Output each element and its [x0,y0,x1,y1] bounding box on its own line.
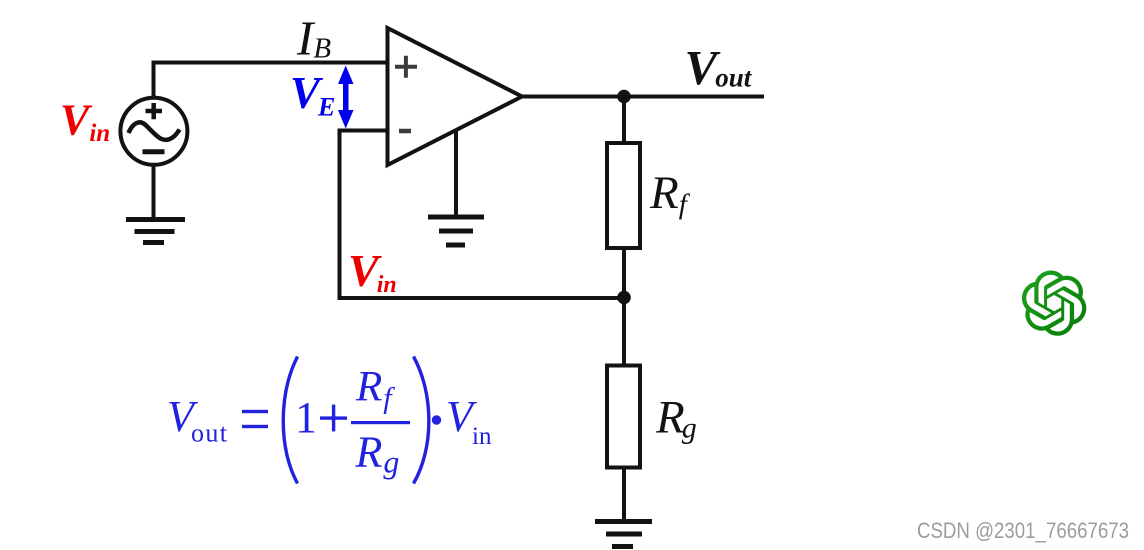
wire: Rg to ground [622,467,626,521]
wire: node B to Rg [622,298,626,367]
wire: feedback horizontal [338,296,625,300]
svg-text:CSDN @2301_76667673: CSDN @2301_76667673 [917,518,1129,543]
wire: minus input to feedback (left and down) [340,131,389,299]
svg-text:out: out [191,419,228,448]
wire: source top vertical [152,63,156,98]
wire: op-amp ground pin [454,130,458,217]
formula V_out = (1 + Rf/Rg) * V_in (blue) [167,357,492,484]
op-amp plus input mark [395,56,417,78]
formula equals sign [242,410,268,413]
wire: Rf to node B [622,248,626,298]
node B (feedback junction) [617,291,631,305]
voltage source V1 circle [120,98,187,165]
op-amp minus input mark [399,129,411,134]
formula fraction bar [351,421,410,424]
voltage source minus mark [143,149,165,154]
svg-text:1: 1 [295,393,317,442]
formula left parenthesis [283,357,297,484]
ground under op-amp [428,217,484,245]
wire: top horizontal to op-amp + input [152,61,389,65]
resistor Rf [607,143,640,248]
node A (output junction) [617,90,631,104]
wire: node to Rf [622,97,626,145]
formula right parenthesis [414,357,429,484]
V_E double arrow (blue) [338,66,354,129]
formula dot operator [432,415,441,424]
wire: output [521,95,764,99]
resistor Rg [607,366,640,468]
ground under Rg [595,522,652,547]
op-amp U1 triangle [388,28,523,165]
wire: source bottom vertical [152,165,156,219]
ground under source [126,220,185,243]
svg-text:in: in [472,423,492,450]
voltage source sine wave [129,122,180,140]
voltage source plus mark [146,103,163,119]
